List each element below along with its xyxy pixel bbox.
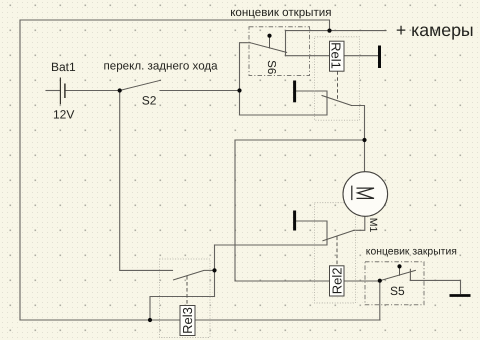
svg-text:Bat1: Bat1 (51, 60, 76, 74)
node S2 pivot (118, 88, 122, 92)
ground (450, 294, 471, 297)
relay contact Rel1 blade (322, 96, 352, 106)
node motor feed (362, 138, 366, 142)
node S5 pole (397, 264, 401, 268)
wire crossover vertical (235, 140, 330, 281)
node bottom rail (148, 318, 152, 322)
relay coil Rel2 (329, 266, 344, 296)
contact bar Rel1 right (+ terminal) (378, 46, 381, 69)
svg-text:S6: S6 (265, 60, 277, 74)
wire S5 throw to ground (410, 269, 460, 293)
motor M1 (343, 172, 388, 217)
svg-text:концевик открытия: концевик открытия (230, 6, 331, 19)
svg-text:Rel3: Rel3 (180, 307, 195, 334)
relay contact Rel3 blade (174, 270, 215, 280)
node top rail junction (327, 29, 331, 33)
wire S5 down to bottom rail (379, 281, 381, 320)
wire Rel1 contact U (240, 91, 328, 115)
dash-dot box koncevik otkrytiya (249, 27, 310, 76)
wire Rel1 coil right (344, 55, 380, 57)
relay coil Rel3 (180, 306, 195, 336)
dotted box relay Rel1 group (315, 37, 360, 121)
dashed link Rel3 coil to contact (186, 276, 188, 306)
svg-text:Rel2: Rel2 (329, 268, 344, 295)
wire battery stub left (46, 90, 60, 92)
node S6 pole (267, 34, 271, 38)
svg-text:S5: S5 (390, 284, 405, 298)
node S5 common (378, 279, 382, 283)
switch S5 pole stub (399, 268, 401, 276)
dashed link Rel2 coil to contact (336, 237, 338, 266)
relay contact Rel2 blade (323, 230, 354, 240)
wire battery to S2 (65, 90, 120, 92)
contact bar Rel1 left (293, 81, 296, 103)
wire S6 left feed (240, 43, 251, 115)
switch S6 blade (250, 43, 287, 53)
wire plus-cameras rail (286, 31, 387, 56)
switch S6 pole stub (269, 37, 271, 48)
svg-text:Rel1: Rel1 (329, 42, 344, 69)
wire Rel3 dot to bottom rail (150, 297, 215, 321)
wire Rel2 coil right to S5 (344, 280, 380, 282)
switch S5 blade (380, 270, 416, 280)
wire top border (20, 20, 330, 320)
svg-text:S2: S2 (142, 93, 157, 107)
svg-text:+ камеры: + камеры (396, 20, 474, 40)
dashed link Rel1 coil to contact (337, 71, 339, 101)
node S2-S6 junction (237, 88, 241, 92)
wire Rel2 contact U (215, 221, 328, 245)
wire S2 down to Rel3 contact (120, 91, 173, 271)
wire Rel1 coil left (286, 55, 330, 57)
battery Bat1 plates (60, 78, 65, 105)
contact bar Rel2 left (293, 211, 296, 231)
svg-text:M1: M1 (367, 218, 379, 233)
dotted box relay Rel3 group (160, 259, 211, 338)
wire Rel1 blade to motor node (352, 106, 365, 141)
wire node to motor top (364, 140, 366, 172)
relay coil Rel1 (329, 41, 344, 71)
svg-text:перекл. заднего хода: перекл. заднего хода (104, 59, 219, 72)
svg-text:12V: 12V (53, 108, 74, 122)
dash-dot box koncevik zakrytiya (365, 262, 424, 305)
dotted box relay Rel2 group (315, 203, 356, 303)
wire S2 to junction (160, 90, 240, 92)
wire motor feed horizontal (235, 139, 365, 141)
switch S2 blade (120, 80, 161, 90)
svg-text:концевик закрытия: концевик закрытия (366, 247, 457, 258)
wire bottom border (20, 319, 380, 321)
wire motor bottom to Rel2 blade (354, 216, 365, 230)
wire down to Rel3 contact dot (214, 245, 216, 297)
node Rel3 contact (212, 268, 216, 272)
